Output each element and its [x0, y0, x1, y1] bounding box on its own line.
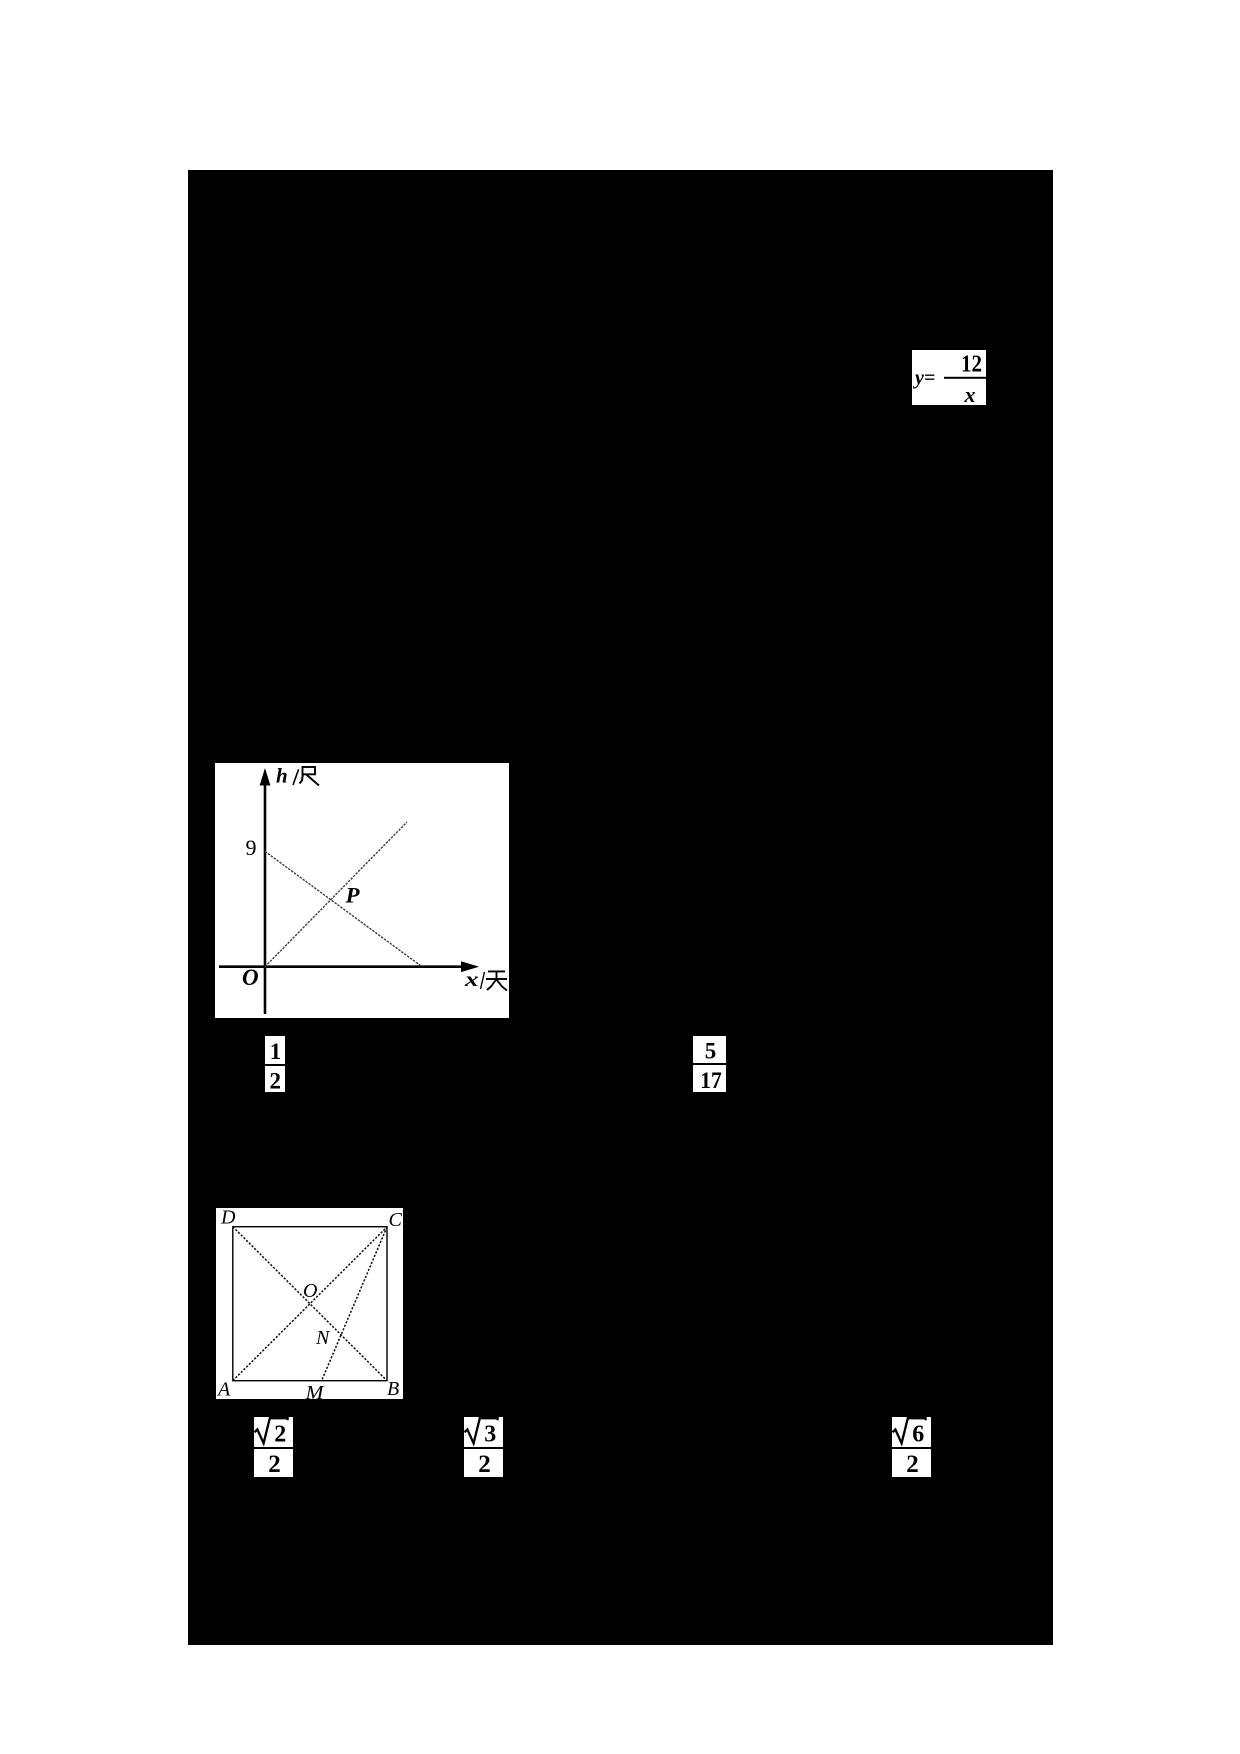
- svg-text:3: 3: [484, 1422, 496, 1448]
- y axis: [260, 768, 271, 1014]
- graph figure box: [215, 763, 509, 1018]
- svg-text:N: N: [315, 1327, 331, 1349]
- label chi (CJK drawn): [300, 767, 320, 786]
- fraction sqrt2/2: [254, 1417, 293, 1477]
- increasing line: [265, 822, 407, 967]
- svg-text:2: 2: [269, 1068, 281, 1092]
- svg-text:P: P: [344, 883, 360, 908]
- svg-text:2: 2: [906, 1451, 919, 1477]
- decreasing line: [265, 851, 422, 966]
- svg-text:2: 2: [268, 1451, 281, 1477]
- svg-text:y=: y=: [913, 367, 935, 389]
- svg-text:9: 9: [246, 835, 257, 860]
- svg-text:O: O: [242, 965, 259, 990]
- svg-text:6: 6: [912, 1422, 924, 1448]
- svg-text:5: 5: [705, 1039, 717, 1064]
- black content area: [188, 170, 1053, 1645]
- fraction sqrt3/2: [464, 1417, 503, 1477]
- svg-text:2: 2: [274, 1422, 286, 1448]
- diagonal DB: [233, 1227, 387, 1381]
- svg-text:C: C: [389, 1209, 403, 1231]
- svg-text:x: x: [464, 969, 479, 991]
- fraction 1/2: [265, 1036, 285, 1092]
- svg-text:x: x: [964, 382, 976, 405]
- svg-text:A: A: [216, 1379, 231, 1400]
- diagonal AC: [233, 1227, 387, 1381]
- svg-text:1: 1: [270, 1039, 282, 1064]
- svg-text:h: h: [276, 764, 288, 788]
- svg-text:M: M: [304, 1382, 325, 1399]
- line CM: [322, 1227, 387, 1381]
- fraction 5/17: [693, 1036, 726, 1092]
- square geometry figure box: [216, 1208, 403, 1399]
- fraction sqrt6/2: [892, 1417, 931, 1477]
- svg-text:17: 17: [700, 1068, 722, 1092]
- x axis: [219, 961, 479, 972]
- label slash2: [481, 972, 485, 989]
- svg-text:2: 2: [478, 1451, 491, 1477]
- svg-text:B: B: [387, 1378, 399, 1399]
- svg-text:D: D: [220, 1208, 236, 1229]
- svg-text:12: 12: [961, 352, 982, 378]
- square ABCD: [233, 1227, 387, 1381]
- formula y=12/x: [912, 350, 986, 405]
- label slash: [293, 769, 299, 785]
- label tian (CJK drawn): [486, 971, 507, 990]
- svg-text:O: O: [303, 1280, 317, 1302]
